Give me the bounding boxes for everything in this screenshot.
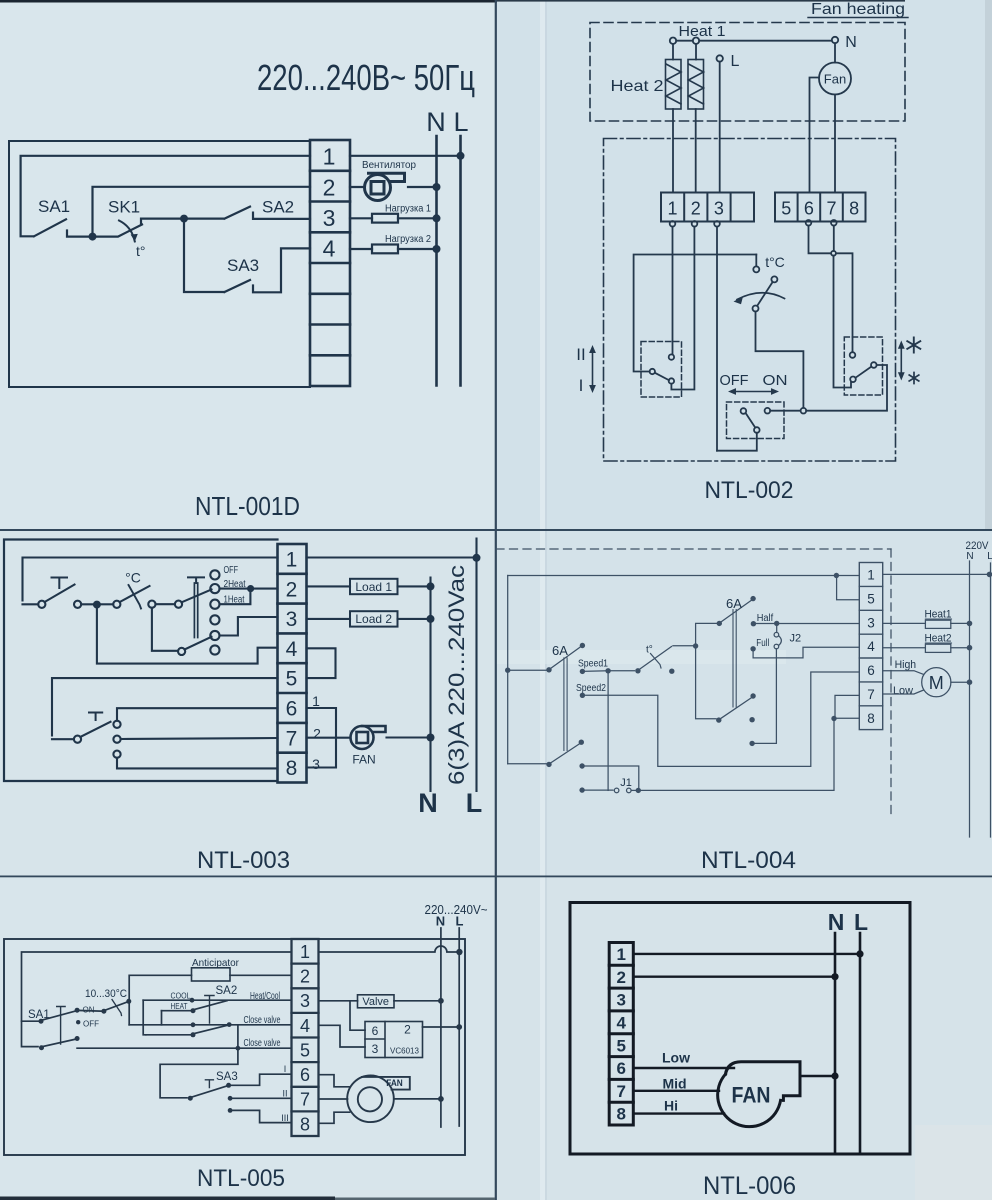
- junction dot load1: [427, 582, 435, 590]
- row A COOL wire to terminal3: [143, 999, 291, 1001]
- contact circle mid: [148, 601, 155, 608]
- enclosure box: [4, 939, 465, 1155]
- right page edge shading: [985, 0, 992, 530]
- wire load2 to N: [398, 248, 437, 250]
- wire load2 to N: [398, 618, 431, 620]
- terminal circle N: [832, 37, 838, 43]
- junction dot on L: [457, 152, 465, 160]
- SA2 upper pivot dot: [191, 1008, 196, 1013]
- terminal circle under 1: [670, 221, 676, 227]
- jumper J2 circles: [774, 632, 779, 637]
- contact circle 5: [210, 631, 219, 640]
- page grid divider horizontal 1: [0, 529, 992, 531]
- wire J1 to terminal 7-8 node: [638, 719, 834, 791]
- wire terminal6 down: [809, 226, 831, 254]
- vertical A-D: [143, 1000, 146, 1035]
- contact dot lower: [750, 693, 755, 698]
- OFF-ON double arrow: [733, 391, 774, 393]
- junction dot L vc: [456, 1024, 462, 1030]
- wire left to SA1: [22, 1020, 42, 1022]
- speed selector dashed box: [641, 342, 682, 398]
- fan inner circle: [358, 1087, 382, 1111]
- wire mid circle down to lower pivot: [152, 608, 178, 651]
- wire fan bottom to terminal7: [834, 95, 836, 192]
- page grid divider horizontal 2: [0, 876, 992, 878]
- SA1 lower blade: [43, 1039, 76, 1046]
- tC rotation arc with arrow: [737, 293, 785, 300]
- horizontal fold crease panel 4: [496, 650, 786, 664]
- contact circle onoff bottom: [754, 427, 760, 433]
- wire N line: [969, 561, 971, 837]
- snowflake small: [909, 373, 919, 384]
- motor M circle: [922, 668, 951, 697]
- wire junction to defrost switch: [806, 365, 887, 411]
- resistor load Nagruzka1: [372, 214, 398, 223]
- selector blade: [655, 373, 669, 381]
- wire fan left to terminal6: [810, 78, 820, 192]
- wire junction to terminal4: [97, 608, 278, 663]
- wire N to fan: [834, 43, 836, 62]
- terminal block 5-8: [775, 193, 866, 222]
- junction dot speed1: [605, 668, 610, 673]
- junction dot load2: [427, 615, 435, 623]
- contact dot Half: [751, 621, 756, 626]
- switch 6A-2 lower pivot: [716, 717, 721, 722]
- wire terminal6 to fan: [307, 708, 337, 738]
- switch SA3: [225, 248, 311, 292]
- contact dot mid spare: [749, 717, 754, 722]
- wire junction to switch top: [836, 253, 853, 352]
- junction dot half: [774, 621, 779, 626]
- load1 box: [350, 579, 398, 594]
- thermostat dash-dot box: [604, 139, 896, 462]
- enclosure box: [570, 903, 910, 1155]
- wire bus drop to terminal5: [837, 576, 860, 600]
- wire terminal4-5 bracket: [307, 648, 336, 678]
- wire junction down to SA3: [184, 219, 224, 292]
- thermostat tC sensor: [755, 255, 757, 267]
- svg-text:4: 4: [616, 1014, 626, 1033]
- switch 6A-1 lower pivot: [546, 762, 551, 767]
- wire row II to terminal7: [230, 1097, 291, 1099]
- wire contactIII to terminal8: [117, 758, 278, 769]
- wire terminal6 to fan: [633, 1067, 734, 1069]
- heater appliance dashed box: [590, 23, 905, 122]
- contact circle onoff right: [765, 408, 771, 414]
- power switch T-handle: [52, 578, 68, 589]
- switch 6A-1 lower blade: [551, 744, 581, 764]
- svg-text:L: L: [854, 909, 868, 935]
- wire terminal5 to fan switch: [52, 678, 278, 735]
- wire: [52, 738, 74, 740]
- SA2 lower blade: [195, 1025, 228, 1033]
- J2 arc: [779, 636, 782, 646]
- valve box: [358, 995, 395, 1008]
- contact circle OFF: [210, 570, 219, 579]
- wire t blade to junction: [673, 645, 696, 647]
- wire contactI to terminal6: [117, 708, 278, 721]
- contact dot t open: [669, 669, 674, 674]
- SA3 tip dot: [226, 1083, 231, 1088]
- terminal block 1-8: [278, 544, 307, 783]
- wire terminal7 to fan: [319, 1098, 348, 1100]
- switch 6A-1 upper pivot: [546, 667, 551, 672]
- thermal switch SK1: [93, 219, 185, 237]
- contact dot Speed1: [580, 669, 585, 674]
- SA1 upper throw dot: [75, 1008, 80, 1013]
- SA1 upper blade: [43, 1011, 76, 1020]
- contact circle common: [650, 369, 655, 374]
- switch 6A-1 upper blade: [551, 647, 582, 669]
- terminal circle under 2: [692, 221, 698, 227]
- terminal circle heat1 right: [693, 38, 699, 44]
- wire terminal7 down: [833, 226, 835, 251]
- wire J2 down to contact: [755, 649, 777, 744]
- junction dot: [93, 601, 101, 609]
- svg-text:Hi: Hi: [664, 1098, 678, 1114]
- wire terminal3 to load1: [350, 217, 372, 219]
- fan switch contact II: [113, 736, 120, 743]
- junction dot J1 right: [636, 788, 641, 793]
- wire valve to N: [394, 1000, 441, 1002]
- SA2 T-handle: [205, 996, 214, 1024]
- dot row A: [190, 998, 195, 1003]
- wire onoff right to junction: [770, 410, 800, 412]
- junction dot L top: [473, 554, 481, 562]
- svg-text:Mid: Mid: [663, 1076, 687, 1092]
- contact dot J1 left: [579, 787, 584, 792]
- contact dot upper: [750, 596, 755, 601]
- switch 6A-2 lower blade: [720, 698, 751, 719]
- wire bottom to switch pivot: [508, 763, 546, 765]
- svg-text:NTL-006: NTL-006: [703, 1172, 796, 1200]
- page bottom-left dark edge: [0, 1197, 335, 1200]
- svg-text:2: 2: [616, 968, 625, 987]
- fan switch blade: [80, 722, 110, 737]
- wire 1Heat up join: [220, 592, 251, 604]
- SA3 pivot dot: [188, 1096, 193, 1101]
- VC6013 box: [365, 1022, 423, 1058]
- wire onoff bottom to terminal3 bus: [717, 433, 757, 451]
- wire terminal1 left down to switch: [23, 558, 278, 601]
- junction dot N heat2: [967, 645, 973, 651]
- wire Speed2 to terminal6: [582, 672, 859, 766]
- wire L line: [475, 539, 477, 792]
- junction circle node: [801, 408, 807, 414]
- contact dot upper throw: [580, 643, 585, 648]
- contact dot J2 end: [749, 741, 754, 746]
- svg-text:N: N: [828, 909, 845, 935]
- wire anticipator to terminal2: [230, 974, 292, 976]
- defrost double arrow: [900, 346, 902, 375]
- thermal switch C: [101, 603, 113, 605]
- contact dot lower throw: [579, 740, 584, 745]
- wire N line: [435, 136, 438, 386]
- switch SA1 upper contact: [39, 1019, 44, 1024]
- junction dot bus: [834, 573, 839, 578]
- heater Heat1 box: [925, 620, 950, 628]
- defrost switch dashed box: [844, 337, 882, 395]
- fan motor circle: [819, 63, 851, 95]
- wire J1 jumper gap: [631, 789, 636, 791]
- thermostat cross stroke: [112, 1000, 122, 1016]
- wire Speed1 vertical to J1: [607, 671, 609, 791]
- wire terminal1 to L line: [307, 556, 477, 558]
- SA1 lower throw dot: [75, 1036, 80, 1041]
- switch 6A-2 linkage bars: [733, 610, 736, 707]
- wire fan to N: [408, 186, 437, 188]
- wire terminal3 down bus: [716, 227, 718, 451]
- row D wire: [146, 1034, 191, 1036]
- junction dot left: [505, 668, 510, 673]
- contact circle lower pivot: [178, 648, 185, 655]
- wire terminal7 to fan: [307, 737, 351, 739]
- dot row C blade tip: [227, 1022, 232, 1027]
- wire terminal1 down to selector: [672, 227, 674, 355]
- wire terminal2 to fan: [350, 186, 364, 188]
- contact dot row II: [228, 1096, 233, 1101]
- junction dot 7-8: [831, 716, 836, 721]
- wire SA3 to terminal6: [229, 1074, 292, 1085]
- fan motor symbol: [351, 726, 386, 749]
- anticipator box: [192, 968, 231, 981]
- wire L line: [990, 563, 992, 837]
- wire heater2 leads: [695, 44, 697, 193]
- heater element 2: [688, 60, 704, 110]
- junction dot N fan: [831, 1072, 838, 1079]
- terminal circle under 3: [714, 221, 720, 227]
- junction dot N row2: [433, 183, 441, 191]
- terminal block 1-8: [609, 943, 633, 1126]
- row B HEAT wire: [162, 1010, 191, 1012]
- wire terminal8 to fan: [633, 1112, 724, 1114]
- wire terminal1 left to SA1: [21, 156, 310, 237]
- switch 6A-1 linkage bars: [564, 658, 567, 751]
- wire row III to terminal8: [230, 1110, 291, 1122]
- wire heater1 leads: [672, 44, 674, 193]
- wire terminal2 to load1: [307, 585, 351, 587]
- wire Speed1 row: [582, 670, 634, 673]
- wire N line: [440, 928, 442, 1127]
- page top edge line: [0, 0, 497, 3]
- wire terminal8 to fan: [307, 738, 337, 768]
- terminal block 1-8: [292, 939, 319, 1136]
- wire tip down to row C: [128, 1001, 130, 1025]
- J2 wire stubs: [776, 626, 778, 632]
- svg-text:3: 3: [616, 991, 625, 1010]
- junction dot mid: [693, 643, 698, 648]
- fan outlet: [725, 1062, 800, 1101]
- wire L to terminal3: [719, 62, 721, 193]
- jumper J1 circles: [614, 788, 619, 793]
- wire fan to N: [800, 1075, 835, 1078]
- svg-text:6: 6: [616, 1059, 625, 1078]
- junction dot N fan: [438, 1096, 444, 1102]
- svg-text:1: 1: [616, 945, 625, 964]
- page grid divider vertical: [495, 0, 497, 1200]
- SA2 lower pivot dot: [191, 1032, 196, 1037]
- tC blade: [757, 282, 772, 306]
- thermostat tip dot: [126, 999, 131, 1004]
- wire tC bottom to junction: [756, 312, 804, 408]
- wire terminal7 jog: [835, 695, 859, 716]
- thermostat dashed border top: [496, 548, 891, 550]
- wire terminal4 to heat2 to N: [883, 647, 970, 649]
- contact circle defrost top: [850, 352, 856, 358]
- switch SA2: [184, 207, 310, 219]
- speed arrow up-down: [592, 350, 594, 388]
- wire terminal2 down and to selector lower throw: [671, 227, 694, 390]
- t switch cross stroke: [651, 654, 662, 669]
- top bus wire: [508, 575, 860, 577]
- wire terminal6 to motor: [883, 671, 924, 675]
- contact circle 6: [210, 645, 219, 654]
- junction dot feed-rowE: [236, 1046, 241, 1051]
- fan blower body: [718, 1074, 781, 1126]
- wire J1 row left: [582, 789, 613, 791]
- wire tip up to anticipator: [129, 975, 191, 1001]
- fan outlet: [362, 1077, 410, 1090]
- SA3 feed vertical: [160, 1025, 238, 1098]
- junction dot N row3: [433, 214, 441, 222]
- vertical B-C: [161, 1011, 163, 1025]
- switch 6A-2 upper pivot: [717, 621, 722, 626]
- wire terminal4 to load2: [350, 248, 372, 250]
- junction dot N row4: [433, 245, 441, 253]
- wire fan to N: [387, 736, 431, 738]
- wire N line: [834, 933, 837, 1153]
- wire motor to N: [951, 681, 970, 683]
- wire junction to both poles of 6A-2: [696, 623, 717, 718]
- wire terminal7 to motor: [883, 690, 924, 694]
- SA1 T-handle: [57, 1007, 65, 1045]
- on-off switch dashed box: [727, 402, 785, 439]
- power switch contacts: [38, 601, 45, 608]
- wire terminal1 to L: [883, 573, 990, 575]
- wire spare contact to J1: [582, 766, 639, 790]
- fan blower outer: [347, 1076, 394, 1123]
- wire terminal3 to load2: [307, 618, 351, 620]
- terminal block 1-3: [661, 193, 754, 222]
- terminal circle under 6: [806, 220, 812, 226]
- vertical fold crease: [540, 0, 545, 1200]
- wire junction up to terminal2: [93, 187, 311, 237]
- junction dot N fan: [427, 734, 435, 742]
- SA3 blade: [192, 1086, 227, 1097]
- junction dot L: [456, 949, 462, 955]
- svg-text:5: 5: [616, 1036, 625, 1055]
- resistor load Nagruzka2: [372, 245, 398, 254]
- svg-text:7: 7: [616, 1082, 625, 1101]
- fan switch contact III: [113, 751, 120, 758]
- wire terminal4 to VC6013 pin3: [319, 1025, 366, 1047]
- wire to junction: [23, 603, 94, 605]
- thermostat t switch pivot dot: [635, 668, 640, 673]
- wire terminal1 to L with hop over N: [319, 946, 460, 952]
- junction dot N motor: [967, 679, 973, 685]
- contact circle upper throw: [669, 354, 674, 359]
- contact circle 2Heat: [210, 584, 219, 593]
- lower selector blade: [185, 637, 212, 650]
- SA2 upper blade: [195, 1001, 228, 1010]
- junction node A: [180, 215, 188, 223]
- junction dot N valve: [438, 998, 444, 1004]
- wire junction down to blade: [834, 256, 852, 388]
- wire terminal1 to L: [633, 953, 860, 955]
- fan switch contact left: [74, 736, 81, 743]
- wire terminal1 left down: [22, 952, 292, 1047]
- contact circle onoff left: [741, 408, 747, 414]
- load2 box: [350, 611, 398, 626]
- junction dot L: [987, 572, 992, 578]
- junction dot N: [831, 973, 838, 980]
- wire N line: [429, 578, 431, 792]
- wire terminal3 to valve: [319, 1000, 358, 1002]
- defrost blade: [855, 367, 871, 378]
- wire L line: [459, 136, 462, 386]
- contact circle upper pivot: [175, 601, 182, 608]
- wire node to terminal8: [834, 717, 859, 719]
- contact circle defrost right: [871, 362, 877, 368]
- switch 6A-2 upper blade: [721, 600, 752, 622]
- fan switch T-handle: [89, 713, 102, 721]
- wire branch to VC6013 pin6: [350, 1001, 365, 1030]
- wire ON to thermostat: [77, 1009, 104, 1012]
- wire terminal2 to N: [633, 976, 835, 978]
- wire terminal8 to fan: [319, 1112, 350, 1123]
- wire L line: [859, 933, 862, 1153]
- contact dot row III: [228, 1108, 233, 1113]
- terminal block 1-8: [310, 140, 350, 386]
- heater Heat2 box: [925, 644, 950, 652]
- enclosure box: [9, 141, 310, 387]
- junction dot N heat1: [967, 621, 973, 627]
- wire contactII to terminal7: [121, 738, 278, 739]
- wire terminal1 to L: [350, 155, 461, 157]
- junction dot 2heat: [247, 585, 254, 592]
- wire load1 to N: [398, 217, 437, 219]
- wire load1 to N: [398, 585, 431, 587]
- terminal circle heat1 left: [670, 38, 676, 44]
- wire left vertical: [507, 576, 509, 764]
- thermostat 10-30C pivot: [101, 1009, 106, 1014]
- wire terminal6 to fan: [319, 1075, 350, 1087]
- SA3 T-handle: [205, 1080, 213, 1088]
- junction circle under 7: [831, 251, 836, 256]
- row C wire to terminal4: [129, 1024, 291, 1026]
- wire left dot to pivot: [508, 669, 546, 671]
- wire terminal7 to fan: [633, 1090, 719, 1092]
- contact circle tC second: [771, 276, 777, 282]
- fan switch contact I: [113, 721, 120, 728]
- wire contact5 to terminal3: [220, 617, 278, 636]
- dot row C: [191, 1022, 196, 1027]
- contact dot spare: [579, 763, 584, 768]
- switch SA1: [34, 219, 93, 236]
- wire Half to terminal3: [753, 623, 859, 625]
- fan motor (Ventilator): [365, 173, 405, 200]
- wire between circles: [156, 603, 175, 605]
- svg-text:8: 8: [616, 1105, 625, 1124]
- SA1 lower contact: [39, 1045, 44, 1050]
- wire terminal3 to heat1 to N: [883, 622, 970, 624]
- contact circle 1Heat: [210, 600, 219, 609]
- junction dot L: [856, 950, 863, 957]
- contact circle 4: [210, 615, 219, 624]
- wire fan to N: [394, 1098, 441, 1100]
- terminal circle L: [717, 55, 723, 61]
- power switch blade: [45, 585, 75, 603]
